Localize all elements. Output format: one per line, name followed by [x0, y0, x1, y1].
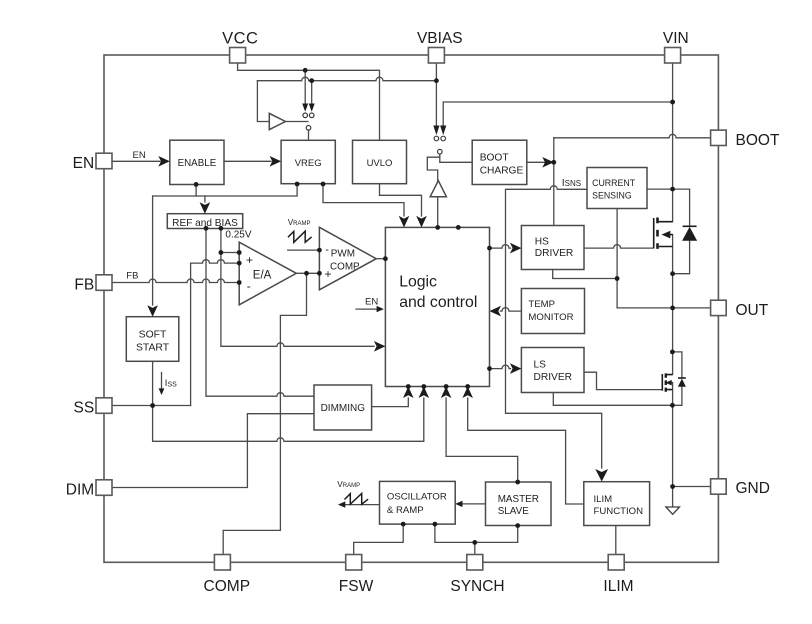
HS diode branch wires	[673, 189, 690, 274]
block HS DRIVER	[521, 226, 584, 270]
wire line1 VCC rail to UVLO top	[238, 70, 380, 140]
wire HS drain-source column segments	[672, 189, 674, 308]
node oscillator bottoms	[401, 522, 406, 527]
svg-text:DIMMING: DIMMING	[321, 403, 366, 414]
wire DIM pin to DIMMING input2	[112, 414, 314, 488]
wire PWM comp output to logic	[376, 258, 385, 260]
wire current sensing bottom to OUT line	[616, 209, 618, 308]
wire ILIM function left to logic bottom arrow	[468, 398, 584, 504]
svg-text:BOOT: BOOT	[736, 132, 780, 149]
svg-text:FB: FB	[74, 277, 94, 294]
arrowhead EN into logic (small)	[377, 306, 384, 312]
wire logic to LS driver with hop	[490, 365, 511, 368]
svg-text:HS: HS	[535, 236, 549, 247]
svg-text:CURRENT: CURRENT	[592, 178, 636, 188]
svg-text:VREG: VREG	[295, 158, 322, 169]
node PWM output at logic	[383, 256, 388, 261]
block Logic and control	[385, 227, 489, 386]
pin GND	[711, 479, 727, 494]
wire logic to HS driver with hop	[490, 245, 511, 248]
wire E/A output feedback to COMP pin	[223, 273, 306, 554]
wire switch1 pole to VREG top	[308, 131, 310, 141]
svg-text:Logic: Logic	[399, 273, 437, 290]
wire ILIM function bottom to ILIM pin	[615, 526, 617, 555]
svg-text:EN: EN	[73, 155, 95, 172]
svg-text:CHARGE: CHARGE	[480, 166, 524, 177]
wire 0.25V reference into E/A	[221, 252, 239, 254]
node BOOT charge junction	[551, 160, 556, 165]
wire EN pin to ENABLE	[112, 160, 160, 162]
block VREG	[281, 140, 335, 183]
pin EN	[96, 153, 112, 169]
wire FB line with four hops	[112, 279, 239, 283]
wire ISNS net from current sensing to ILIM function	[506, 186, 602, 468]
arrowhead temp monitor into logic right	[490, 306, 502, 317]
wire follower triangle to logic top	[437, 197, 439, 228]
svg-text:& RAMP: & RAMP	[387, 505, 424, 516]
wire switch2 pole to BOOT CHARGE input	[440, 161, 472, 163]
svg-text:LS: LS	[534, 359, 547, 370]
svg-text:ILIM: ILIM	[594, 494, 613, 505]
node 0.25V tap	[219, 250, 224, 255]
wire switch1 throw A from VCC	[304, 70, 306, 104]
block TEMP MONITOR	[521, 289, 584, 334]
node HS bottom tie	[615, 276, 620, 281]
svg-text:MONITOR: MONITOR	[528, 312, 573, 323]
wire master slave top to logic bottom arrow	[446, 398, 518, 482]
arrowhead ENABLE into VREG	[270, 156, 282, 167]
block DIMMING	[314, 385, 372, 430]
node VCC rail	[303, 68, 308, 73]
pin OUT	[711, 300, 727, 315]
node PWM comp inputs	[317, 248, 322, 253]
block BOOT CHARGE	[472, 140, 527, 184]
svg-text:UVLO: UVLO	[367, 158, 393, 169]
svg-text:VBIAS: VBIAS	[417, 30, 463, 47]
switch2 contact circles	[434, 136, 439, 141]
wire ramp input into PWM comp	[288, 249, 320, 251]
wire line2 VBIAS rail with hops	[257, 77, 436, 81]
node VREG bottom right	[321, 182, 326, 187]
svg-text:BOOT: BOOT	[480, 153, 509, 164]
arrowhead into REF and BIAS top	[200, 202, 211, 214]
wire GND node to GND pin	[673, 486, 711, 488]
wire REF and BIAS out1 to DIMMING input1 with hop	[206, 228, 314, 396]
wire HS driver bottom to CS column	[553, 270, 617, 279]
svg-text:SYNCH: SYNCH	[450, 578, 504, 595]
buffer U1 (bias switch driver)	[269, 113, 285, 129]
node OUT line	[670, 306, 675, 311]
pin SS	[96, 398, 112, 414]
wire OUT line	[617, 307, 711, 309]
arrowhead logic into HS driver	[510, 243, 522, 254]
svg-text:TEMP: TEMP	[528, 299, 555, 310]
high-side MOSFET Q1	[654, 218, 673, 249]
high-side body diode D1	[682, 226, 697, 240]
block ENABLE	[170, 140, 224, 184]
wire DIMMING output to logic bottom arrow	[372, 398, 409, 407]
wire VIN branch line to switch2 throw	[443, 102, 672, 125]
svg-text:and control: and control	[399, 294, 477, 311]
arrowhead BOOT CHARGE output	[542, 157, 554, 168]
svg-text:VCC: VCC	[222, 30, 258, 48]
node SS junction	[150, 403, 155, 408]
svg-text:E/A: E/A	[253, 270, 272, 282]
node logic bottom edge	[406, 384, 411, 389]
arrowhead ILIM into logic bottom	[462, 387, 473, 399]
pin BOOT	[711, 130, 727, 145]
wire current sensing right to VIN node	[647, 188, 673, 190]
wire VRAMP arrow at oscillator	[345, 504, 380, 506]
arrowhead Iss (small)	[159, 388, 165, 395]
wire SS pin line	[112, 405, 190, 407]
svg-text:DIM: DIM	[66, 482, 94, 499]
low-side MOSFET Q2	[662, 373, 672, 391]
wire REF and BIAS out2 to logic left arrow with hop	[221, 228, 374, 346]
node VREG bottom left	[295, 182, 300, 187]
arrowhead UVLO rail into logic top	[416, 216, 427, 228]
svg-text:GND: GND	[736, 480, 770, 497]
svg-text:+: +	[325, 267, 332, 281]
arrowhead DIMMING into logic bottom	[403, 387, 414, 399]
node LS drain	[670, 350, 675, 355]
svg-text:REF and BIAS: REF and BIAS	[172, 218, 238, 229]
svg-text:FUNCTION: FUNCTION	[594, 506, 644, 517]
block REF and BIAS	[167, 214, 242, 229]
node ENABLE bottom	[194, 182, 199, 187]
svg-text:SOFT: SOFT	[139, 330, 167, 341]
arrowhead ISNS into ILIM function	[595, 469, 608, 482]
switch1 arrow B head	[309, 104, 315, 112]
comparator PWM COMP	[319, 227, 376, 289]
switch2 arrow A head	[433, 126, 439, 136]
pin VBIAS	[428, 48, 444, 64]
svg-text:COMP: COMP	[330, 262, 360, 273]
node logic top edge	[435, 225, 440, 230]
wire switch2 pole jog to follower triangle	[427, 154, 440, 180]
pin SYNCH	[467, 555, 483, 571]
arrowhead master slave to oscillator (small)	[455, 501, 462, 507]
wire left column to SOFT START	[152, 196, 154, 305]
block ILIM FUNCTION	[584, 482, 650, 526]
pin FSW	[346, 555, 362, 571]
node VBIAS rail	[309, 78, 314, 83]
follower triangle U2 above logic	[430, 181, 446, 197]
switch1 arrow A head	[302, 104, 308, 112]
svg-text:SS: SS	[74, 400, 95, 417]
svg-text:ENABLE: ENABLE	[178, 158, 217, 169]
arrowhead SS rail into logic bottom	[419, 387, 430, 399]
node VIN branch	[670, 100, 675, 105]
svg-text:EN: EN	[365, 296, 378, 307]
svg-text:ISNS: ISNS	[562, 177, 581, 189]
ground symbol	[666, 507, 680, 514]
wire ENABLE bottom to bias rail	[195, 184, 197, 196]
wire BOOT line with hop over VIN vertical	[554, 134, 711, 138]
wire buffer output to switch1	[286, 121, 308, 123]
arrowhead logic into LS driver	[510, 363, 522, 374]
wire Iss annotation arrow stem	[161, 373, 163, 390]
wire VBIAS pin drop to switch2	[435, 63, 437, 125]
svg-text:SLAVE: SLAVE	[498, 506, 530, 517]
op-amp E/A	[239, 242, 296, 305]
wire oscillator and master slave bottoms to SYNCH pin	[435, 524, 518, 554]
wire VREG bottom-right to logic top arrow	[323, 184, 404, 216]
wire SOFT START bottom to SS node	[152, 361, 154, 405]
arrowhead VREG rail into logic top	[399, 216, 410, 228]
svg-text:DRIVER: DRIVER	[534, 372, 573, 383]
block SOFT START	[126, 317, 179, 362]
pin DIM	[96, 480, 112, 496]
pin ILIM	[608, 555, 624, 571]
svg-text:FB: FB	[126, 271, 138, 282]
wire oscillator bottom to FSW pin	[354, 524, 404, 554]
arrowhead bias into logic left	[374, 341, 386, 352]
block CURRENT SENSING	[587, 168, 647, 209]
svg-text:START: START	[136, 342, 170, 353]
sawtooth VRAMP at PWM comp	[288, 231, 312, 242]
node VIN drain	[670, 187, 675, 192]
node GND	[670, 484, 675, 489]
svg-text:ILIM: ILIM	[603, 578, 633, 595]
svg-text:FSW: FSW	[339, 578, 374, 595]
wire LS driver bottom to source line	[553, 393, 672, 406]
node logic right edge	[487, 246, 492, 251]
svg-text:+: +	[246, 253, 253, 267]
node E/A inputs	[237, 250, 242, 255]
pin VIN	[665, 48, 681, 64]
wire BOOT charge column to HS driver top	[553, 138, 555, 226]
wire ENABLE to VREG	[224, 160, 271, 162]
wire VCC pin drop to line1	[237, 63, 239, 70]
block UVLO	[353, 140, 407, 183]
node SYNCH tie	[472, 540, 477, 545]
wire SS node down to logic bottom rail with hop	[153, 398, 424, 441]
node REF and BIAS outputs	[204, 226, 209, 231]
wire switch1 throw B from VBIAS rail	[311, 81, 313, 104]
pin COMP	[214, 555, 230, 571]
svg-text:0.25V: 0.25V	[225, 230, 251, 241]
svg-text:-: -	[247, 279, 251, 293]
switch2 arrow B head	[440, 126, 446, 136]
wire temp monitor to logic with hop	[500, 308, 521, 312]
svg-text:-: -	[325, 244, 329, 256]
wire BOOT CHARGE output arrow line	[527, 161, 545, 163]
wire EN arrow into logic	[356, 308, 378, 310]
svg-text:PWM: PWM	[331, 248, 355, 259]
pin VCC	[230, 48, 246, 64]
outer chip boundary	[104, 55, 718, 562]
LS diode branch wires	[672, 352, 682, 405]
svg-text:OSCILLATOR: OSCILLATOR	[387, 491, 447, 502]
wire VREG bottom-left rail to left column	[153, 184, 298, 196]
svg-text:COMP: COMP	[204, 578, 251, 595]
wire HS driver output to gate with hop	[584, 245, 654, 248]
arrowhead VRAMP left (small)	[338, 501, 345, 507]
switch1 contact circles	[303, 113, 308, 118]
svg-text:SENSING: SENSING	[592, 191, 632, 201]
arrowhead master slave into logic bottom	[441, 387, 452, 399]
wire buffer input drop	[257, 81, 269, 122]
wire LS driver output to gate	[584, 372, 662, 389]
node master slave top and bottom	[515, 480, 520, 485]
svg-text:EN: EN	[133, 150, 146, 161]
low-side body diode D2	[678, 378, 686, 387]
svg-text:VIN: VIN	[663, 30, 689, 47]
node E/A output	[304, 271, 309, 276]
pin FB	[96, 275, 112, 291]
arrowhead EN into ENABLE	[158, 156, 170, 167]
sawtooth VRAMP at oscillator	[345, 494, 369, 505]
block OSCILLATOR and RAMP	[380, 481, 456, 524]
svg-text:DRIVER: DRIVER	[535, 248, 574, 259]
block LS DRIVER	[521, 348, 584, 393]
wire UVLO bottom to logic top arrow	[380, 184, 422, 216]
wire VIN pin vertical	[672, 63, 674, 189]
wire soft start clamp into E/A with hops	[191, 260, 240, 406]
wire E/A output to PWM comp	[296, 272, 319, 274]
arrowhead into SOFT START top	[147, 305, 158, 317]
svg-text:OUT: OUT	[736, 302, 769, 319]
wire master slave to oscillator arrow	[462, 503, 486, 505]
wire REF and BIAS feed arrow stem	[204, 196, 206, 202]
node HS source	[670, 271, 675, 276]
node LS source	[670, 403, 675, 408]
svg-text:MASTER: MASTER	[498, 494, 539, 505]
block MASTER SLAVE	[486, 482, 552, 526]
wire LS drain node down to GND symbol	[672, 308, 674, 507]
